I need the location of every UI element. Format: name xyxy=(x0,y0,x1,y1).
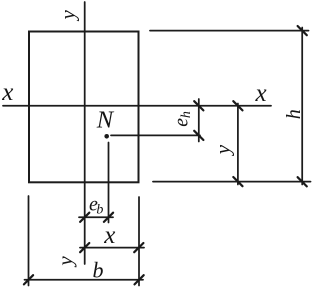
tick b right xyxy=(135,275,144,284)
svg-text:x: x xyxy=(1,79,13,106)
extension line below N xyxy=(108,143,110,223)
svg-text:y: y xyxy=(56,10,80,22)
top extension line xyxy=(150,30,309,32)
svg-text:h: h xyxy=(283,109,305,119)
tick h top xyxy=(298,26,307,35)
svg-text:eb: eb xyxy=(89,194,103,218)
dimension h line xyxy=(301,28,303,185)
svg-text:b: b xyxy=(93,258,104,283)
x axis xyxy=(3,105,271,107)
right extension line xyxy=(138,197,140,286)
bottom extension line xyxy=(153,181,311,183)
tick h bottom xyxy=(298,177,307,186)
dimension x line xyxy=(80,247,144,249)
tick x-dim left xyxy=(80,243,89,252)
tick e_h bottom xyxy=(194,131,203,140)
dimension y line xyxy=(237,104,239,185)
tick e_b left xyxy=(80,213,89,222)
load point N dot xyxy=(104,134,109,139)
tick y-dim top xyxy=(233,101,242,110)
tick b left xyxy=(24,275,33,284)
svg-text:y: y xyxy=(211,144,235,156)
tick y-dim bottom xyxy=(233,177,242,186)
section rectangle xyxy=(29,32,139,183)
svg-text:y: y xyxy=(53,256,77,268)
dimension e_h line xyxy=(198,99,200,142)
svg-text:x: x xyxy=(255,80,267,107)
dimension e_b line xyxy=(79,216,113,218)
wire from N to e_h dimension xyxy=(111,134,200,136)
left extension line xyxy=(28,196,30,286)
tick x-dim right xyxy=(134,243,143,252)
y axis xyxy=(84,2,86,264)
dimension b line xyxy=(25,279,144,281)
svg-text:eh: eh xyxy=(172,111,195,127)
tick e_b right xyxy=(104,213,113,222)
tick e_h top xyxy=(194,101,203,110)
svg-text:N: N xyxy=(96,106,115,133)
svg-text:x: x xyxy=(103,222,115,249)
